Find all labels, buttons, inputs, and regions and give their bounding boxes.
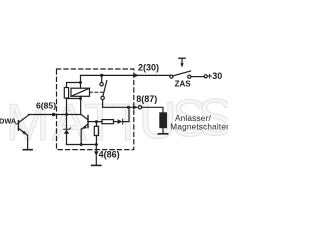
- ground solenoid: [158, 133, 167, 135]
- node 87 junction: [127, 106, 130, 109]
- wire emitter to ground rail: [80, 129, 82, 145]
- svg-text:4(86): 4(86): [99, 150, 120, 160]
- transistor Q1 DWA: [17, 121, 19, 131]
- actuator ZAS plunger: [179, 57, 185, 59]
- node coil top junction: [79, 81, 82, 84]
- svg-text:ZAS: ZAS: [175, 80, 192, 89]
- wire bottom rail: [67, 144, 97, 146]
- wire coil top stub: [80, 83, 82, 89]
- node emitter rail junction: [80, 143, 83, 146]
- relay contact lower terminal: [101, 96, 104, 99]
- node coil bottom junction: [79, 97, 82, 100]
- node base network junction: [95, 120, 98, 123]
- wire ZAS to +30: [191, 76, 204, 78]
- wire 4(86) to ground: [95, 156, 97, 165]
- resistor R3 vertical: [95, 122, 97, 127]
- wire 4(86) drop: [95, 145, 97, 152]
- resistor R2 horizontal: [102, 120, 114, 124]
- wire to starter solenoid: [142, 107, 163, 112]
- mechanical link dashed: [90, 91, 103, 93]
- terminal circle 8(87): [138, 106, 141, 109]
- node 86 rail junction: [95, 143, 98, 146]
- watermark: [6, 89, 233, 152]
- node top rail junction: [100, 74, 103, 77]
- wire zener column: [66, 99, 68, 145]
- starter solenoid block: [159, 112, 167, 128]
- relay contact blade: [103, 81, 107, 97]
- relay contact upper terminal: [101, 75, 103, 82]
- terminal arrow 8(87): [133, 105, 138, 109]
- switch ZAS: [170, 75, 173, 78]
- ground DWA: [23, 149, 32, 151]
- wire top rail 2(30): [81, 74, 170, 76]
- relay enclosure dashed box: [57, 69, 134, 150]
- wire 8(87) rail: [103, 106, 134, 108]
- svg-text:DWA: DWA: [0, 117, 17, 126]
- svg-text:6(85): 6(85): [36, 101, 56, 111]
- terminal dot 6(85): [52, 113, 56, 117]
- terminal circle +30: [204, 75, 207, 78]
- transistor Q2: [87, 116, 89, 128]
- wire coil bottom link: [67, 96, 81, 98]
- svg-text:+30: +30: [207, 71, 222, 81]
- resistor R1 parallel to coil: [64, 88, 68, 99]
- transistor Q2 collector wire: [80, 99, 82, 115]
- wire Q1 emitter down: [27, 135, 29, 149]
- svg-text:2(30): 2(30): [138, 63, 159, 73]
- wire D1 up to 87 rail: [123, 107, 129, 121]
- ground 4(86): [92, 164, 101, 166]
- zener diode Z1: [64, 129, 69, 133]
- svg-text:8(87): 8(87): [136, 94, 157, 104]
- wire R2 to D1: [114, 121, 118, 123]
- wire coil top link: [67, 75, 81, 87]
- terminal arrow 2(30): [134, 73, 140, 77]
- relay coil K1: [71, 88, 90, 96]
- svg-text:Magnetschalter: Magnetschalter: [170, 123, 228, 132]
- svg-text:T: T: [84, 94, 116, 152]
- wire 6(85) lead: [29, 114, 82, 116]
- diode D1: [118, 119, 123, 124]
- terminal arrow 4(86): [94, 151, 99, 156]
- wire base lead: [88, 121, 102, 123]
- node base branch junction: [65, 113, 68, 116]
